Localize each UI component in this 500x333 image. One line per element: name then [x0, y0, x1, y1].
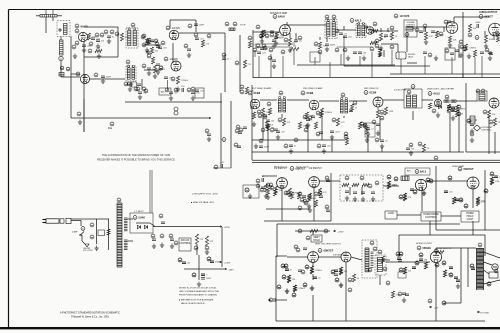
wire vert grid drop [276, 255, 287, 257]
capacitor sc53 [311, 116, 315, 118]
padder C5 [59, 73, 64, 77]
capacitor C131 [449, 267, 453, 269]
capacitor C126 [397, 258, 401, 260]
svg-text:1/2 6SN7GT: 1/2 6SN7GT [274, 168, 287, 170]
wire if v10 [379, 116, 381, 140]
capacitor C81 [243, 127, 247, 129]
wire mid join [213, 167, 231, 169]
resistor sc59 [319, 111, 322, 118]
wire t4 out [287, 99, 309, 101]
svg-text:.0047: .0047 [335, 132, 341, 134]
tube V10 3rd video IF [373, 97, 383, 107]
wire horiz row2 [441, 215, 461, 217]
svg-text:22K: 22K [492, 114, 496, 116]
wire if v4 [323, 151, 325, 152]
resistor sc21 [275, 32, 285, 39]
ref C79 [222, 138, 226, 142]
wire hw2 out [128, 240, 134, 242]
wire hv vert 468 [467, 248, 469, 287]
ref C25a [222, 53, 226, 57]
ref ig4 [375, 181, 379, 185]
ref C94c [413, 190, 417, 194]
wire v7 drop1 [484, 31, 486, 36]
wire ho rail248 [436, 247, 476, 249]
ground g53b [402, 298, 406, 303]
capacitor sc132 [334, 270, 338, 272]
svg-text:.01: .01 [371, 129, 375, 131]
capacitor C75 [169, 92, 179, 95]
svg-text:10K: 10K [270, 124, 274, 126]
ref C29 [270, 33, 274, 37]
ref R102 [348, 288, 352, 292]
ref R23 [314, 42, 318, 46]
wire det load [458, 109, 460, 152]
capacitor Cr3 [358, 52, 367, 55]
resistor sc60 [350, 104, 357, 111]
wire tuner vert B [83, 42, 85, 132]
resistor R9 [145, 38, 155, 45]
svg-text:LOW SUPPLY VOLT +275V: LOW SUPPLY VOLT +275V [192, 194, 218, 196]
resistor sc55 [314, 122, 317, 129]
ref C136 [428, 299, 432, 303]
trap coil L4b [413, 95, 417, 107]
resistor R75 [342, 183, 349, 186]
ref vt1 [298, 229, 302, 233]
ground sc123 [285, 289, 289, 294]
part ref sc57 [316, 132, 320, 136]
wire vert box top [277, 223, 460, 225]
resistor sc89 [308, 193, 311, 200]
resistor sc37 [371, 29, 378, 32]
wire ho grid [386, 261, 430, 263]
ref left c1 [95, 33, 99, 37]
ref row r1 [253, 48, 257, 52]
svg-text:.05: .05 [385, 141, 389, 143]
tube V5 ratio det [366, 27, 374, 35]
wire drop s6 [329, 62, 331, 78]
capacitor C28 [260, 48, 269, 51]
part ref sc159 [245, 188, 249, 192]
ref C15 [141, 35, 145, 39]
wire if b+ rail [252, 151, 464, 153]
ref R95 [277, 285, 281, 289]
part ref sc157 [487, 282, 491, 286]
resistor sc83 [273, 189, 276, 196]
capacitor sc137 [397, 258, 401, 260]
tube V8 1st video IF [250, 99, 260, 109]
wire row top link2 [337, 46, 372, 48]
ground g29 [322, 149, 326, 154]
wire t7 in [351, 257, 362, 260]
wire horiz rail235 [399, 234, 485, 236]
ref ig1 [345, 176, 349, 180]
width coil box [375, 255, 386, 275]
part ref sc52 [308, 116, 312, 120]
resistor R94 [287, 275, 295, 283]
part ref sc18 [265, 34, 269, 38]
svg-text:+275V: +275V [224, 227, 231, 229]
ground g33b [436, 113, 440, 118]
ref R66 [260, 188, 264, 192]
capacitor sc27 [419, 31, 423, 33]
wire line top [71, 218, 109, 220]
ground snd row1 [346, 56, 350, 61]
capacitor sc29 [447, 21, 451, 23]
ref switch [81, 227, 85, 231]
wire psu down [196, 244, 198, 255]
capacitor Cb1 [161, 222, 165, 224]
resistor sc113 [490, 177, 493, 184]
wire agc keyer drop [449, 113, 451, 152]
resistor sc87 [297, 192, 307, 199]
wire horiz row [397, 214, 421, 216]
ref row1 [136, 87, 140, 91]
svg-text:TO YOKE: TO YOKE [480, 313, 489, 315]
svg-text:THE COOPERATION OF THE MANUFAC: THE COOPERATION OF THE MANUFACTURER OF T… [102, 153, 171, 157]
vert output transformer T7 [362, 240, 377, 278]
wire vert grid [287, 256, 308, 258]
svg-text:.022: .022 [174, 93, 179, 95]
ref C80b [239, 128, 243, 132]
ref V5 [350, 19, 354, 23]
vert top rail [295, 230, 330, 232]
ref R104 [399, 268, 403, 272]
svg-text:.022: .022 [220, 162, 225, 164]
ref R61 [489, 120, 493, 124]
wire if v9 [321, 116, 323, 140]
wire sound in drop1 [254, 50, 256, 57]
part ref sc17 [259, 34, 263, 38]
capacitor C96 [455, 199, 464, 202]
svg-text:©Howard W. Sams & Co., Inc. 19: ©Howard W. Sams & Co., Inc. 1951 [71, 315, 110, 318]
wire mixer drop [141, 79, 143, 90]
wire snd v10 [443, 27, 445, 32]
resistor R45 [320, 108, 332, 116]
svg-text:1K: 1K [384, 37, 387, 39]
wire sound in [253, 31, 280, 33]
svg-text:150: 150 [411, 149, 415, 151]
video peaking L7 [479, 93, 485, 100]
capacitor C41 [475, 22, 481, 28]
resistor R64 [245, 87, 254, 94]
wire trap out [422, 99, 433, 101]
ref row r4 [281, 50, 285, 54]
ground g10 [176, 87, 180, 92]
ref R4 [88, 49, 92, 53]
antenna coil L1 [64, 24, 68, 35]
svg-text:VERT OSC VERT OUTPUT: VERT OSC VERT OUTPUT [315, 244, 341, 246]
wire agc keyer drop2 [377, 107, 379, 110]
ref C46 [428, 53, 432, 57]
wire box to coil2 [60, 37, 62, 41]
ref yoke c [442, 301, 446, 305]
resistor R14 [176, 76, 188, 84]
tone box [310, 52, 320, 62]
ground sc68 [365, 138, 369, 143]
wire if v5 [331, 138, 333, 152]
capacitor C112 [201, 274, 208, 277]
ref R63 [240, 85, 244, 89]
ref c vo1 [294, 245, 298, 249]
resistor R83 [452, 197, 460, 204]
wire tuner right down [117, 27, 119, 40]
wire snd v1 [261, 32, 263, 41]
ref V15 [415, 170, 419, 174]
IF strip bottom rail [252, 159, 500, 161]
resistor Rrow [290, 46, 299, 51]
ref C56 [303, 115, 307, 119]
wire b+ down [221, 227, 223, 267]
ref line r1 [90, 223, 94, 227]
resistor R26b [390, 32, 397, 40]
ref C70 [77, 112, 81, 116]
svg-text:10K: 10K [287, 122, 291, 124]
wire coil to mixer [61, 76, 80, 78]
capacitor C125c [402, 293, 406, 295]
peaking coil L5 [444, 100, 449, 102]
svg-text:.005: .005 [196, 93, 201, 95]
ref bus c1 [325, 176, 329, 180]
resistor R16c [248, 41, 256, 48]
ground snd row3 [434, 56, 438, 61]
wire width drop2 [379, 275, 381, 285]
ref C129 [419, 253, 423, 257]
ref R12 [142, 64, 146, 68]
ref C65 [432, 109, 436, 113]
on-off switch [80, 232, 84, 236]
capacitor sc24 [272, 60, 276, 62]
ground g47 [170, 244, 174, 249]
wire antenna down [52, 17, 54, 21]
ref T4 [279, 91, 283, 95]
resistor R24h [370, 41, 377, 44]
ref row r7 [370, 47, 374, 51]
part ref sc50 [267, 102, 271, 106]
resistor Rr6 [473, 50, 476, 57]
part ref sc121 [277, 285, 281, 289]
ground g6 [129, 82, 133, 87]
svg-text:VIDEO DET + AGC KEYER: VIDEO DET + AGC KEYER [427, 88, 454, 91]
wire if v7 [381, 147, 383, 152]
svg-text:22K: 22K [210, 241, 214, 243]
wire sec left edge [252, 30, 254, 78]
wire contrast drop [494, 132, 496, 154]
part ref sc56 [304, 128, 308, 132]
wire snd v2 [275, 32, 277, 37]
grid network box [365, 123, 375, 137]
wire tuner vert A [70, 36, 72, 118]
svg-text:.05: .05 [318, 278, 322, 280]
ground sc92 [308, 208, 312, 213]
part ref sc42 [258, 114, 262, 118]
part ref sc130 [303, 283, 307, 287]
mixer coil T1b [126, 65, 136, 81]
capacitor sc115 [494, 176, 498, 178]
ref R30 [439, 32, 443, 36]
svg-text:46a: 46a [108, 127, 113, 130]
wire snd v6 [326, 37, 328, 42]
wire afc rail [427, 180, 468, 182]
ground g13 [260, 39, 264, 44]
ref C80 [236, 125, 240, 129]
capacitor C41b [431, 31, 440, 34]
part ref sc61 [353, 101, 357, 105]
part ref sc158 [442, 301, 446, 305]
ref C59 [294, 138, 298, 142]
capacitor sc39 [378, 48, 382, 50]
ground g48 [160, 243, 164, 248]
capacitor sc32 [455, 50, 459, 52]
wire video drop [488, 116, 490, 154]
part ref sc138 [396, 252, 400, 256]
capacitor sc62 [349, 110, 353, 112]
ref ac1 [426, 178, 430, 182]
ref V3b [164, 57, 168, 61]
part ref sc38 [375, 44, 379, 48]
capacitor Cr5 [450, 53, 454, 55]
resistor R31 [468, 24, 476, 32]
capacitor sc129 [313, 277, 317, 279]
wire audio vert bus [462, 12, 464, 77]
diode det1 [365, 26, 368, 29]
capacitor cc2 [238, 132, 242, 134]
capacitor sc1 [146, 41, 150, 43]
ref C21 [171, 77, 175, 81]
ref bus c2 [325, 205, 329, 209]
svg-text:.01: .01 [299, 41, 303, 43]
svg-text:47: 47 [290, 270, 293, 272]
svg-text:22K: 22K [200, 239, 204, 241]
ref C76 [187, 88, 191, 92]
wire rect join [136, 222, 150, 224]
capacitor C126b [398, 260, 402, 262]
resistor R51 [384, 107, 394, 115]
integrator network box [340, 175, 383, 201]
svg-text:5U4G: 5U4G [139, 217, 146, 220]
wire horiz bus 436 [435, 166, 437, 230]
svg-text:.005: .005 [348, 37, 353, 39]
ref R19 [262, 44, 266, 48]
svg-text:22K: 22K [206, 43, 210, 45]
resistor sc80 [266, 188, 269, 195]
part ref sc3 [154, 39, 158, 43]
ref V11 [428, 92, 432, 96]
wire v6 plate [453, 17, 455, 24]
IF strip left bus [251, 85, 253, 160]
ref C94 [448, 176, 452, 180]
svg-text:1/2 6AT6: 1/2 6AT6 [400, 15, 410, 18]
ground gagc [376, 131, 380, 136]
ref R54 [375, 138, 379, 142]
capacitor Cbus2 [326, 210, 330, 212]
conv box 1 [159, 88, 171, 95]
capacitor CL1 [96, 40, 105, 43]
capacitor sc161 [182, 262, 186, 264]
resistor R81 [403, 193, 411, 201]
contrast diamond [474, 125, 481, 131]
ref R56c [457, 105, 461, 109]
svg-text:6AL5: 6AL5 [355, 19, 362, 23]
svg-text:82: 82 [112, 37, 115, 39]
svg-text:120K: 120K [433, 106, 438, 108]
part ref sc28 [444, 20, 448, 24]
ground g15 [288, 48, 292, 53]
ref vol [405, 33, 409, 37]
ref C116 [282, 275, 286, 279]
tube V16 horiz osc [467, 177, 479, 189]
wire drop s11 [400, 59, 402, 74]
ref C25b [235, 61, 239, 65]
wire sync vert [330, 173, 332, 221]
svg-text:22K: 22K [460, 113, 464, 115]
ref R21 [284, 38, 288, 42]
capacitor sc79 [261, 187, 265, 189]
wire if v3 [307, 126, 309, 152]
resistor R56b [455, 105, 465, 112]
capacitor Cr8 [488, 52, 492, 54]
ref Ragc3 [372, 120, 376, 124]
wire right bus 485 [484, 170, 486, 230]
resistor R5 [95, 48, 102, 53]
wire audio b+ v [458, 44, 460, 58]
wire sw down [81, 235, 83, 241]
RF coil L2 [60, 40, 64, 55]
resistor R8 [120, 33, 130, 41]
ref T7 [370, 241, 374, 245]
ground g25 [254, 144, 258, 149]
svg-text:47: 47 [294, 146, 297, 148]
capacitor C128 [419, 259, 428, 262]
svg-text:6BG6G: 6BG6G [423, 247, 432, 250]
svg-text:AUDIO OUTPUT: AUDIO OUTPUT [479, 11, 498, 14]
wire line corner [80, 221, 82, 227]
part ref sc106 [448, 176, 452, 180]
ref row r10 [463, 47, 467, 51]
wire osc cluster rail [143, 44, 161, 46]
svg-text:VOL CONT: VOL CONT [83, 250, 93, 252]
ref C71 [134, 87, 138, 91]
ref R87b [490, 172, 494, 176]
part ref sc114 [490, 172, 494, 176]
ref R100 [335, 278, 339, 282]
wire drop s12 [424, 56, 426, 74]
capacitor C52 [259, 146, 270, 149]
wire drop s15 [481, 56, 483, 78]
svg-text:.047: .047 [281, 132, 286, 134]
wire row top link [255, 46, 292, 48]
ground g1 [82, 48, 86, 53]
capacitor C47 [423, 52, 427, 54]
ground g18 [379, 46, 383, 51]
svg-text:CONTROL: CONTROL [406, 24, 415, 26]
ground snd row5 [488, 56, 492, 61]
resistor sc127 [310, 266, 313, 273]
vert section bottom [276, 320, 485, 322]
resistor R16b [243, 60, 251, 68]
part ref sc126 [301, 270, 305, 274]
wire v4 plate [286, 22, 288, 25]
wire line to sw [71, 220, 81, 222]
tube V3a osc [169, 30, 179, 40]
wire det out [456, 100, 477, 102]
ground gig4 [371, 197, 375, 202]
wire width drop [429, 221, 431, 235]
svg-text:100K: 100K [489, 39, 494, 41]
capacitor sc71 [451, 110, 455, 112]
capacitor C101 [152, 239, 156, 241]
ground g19 [424, 40, 428, 45]
resistor R101 [352, 274, 359, 282]
